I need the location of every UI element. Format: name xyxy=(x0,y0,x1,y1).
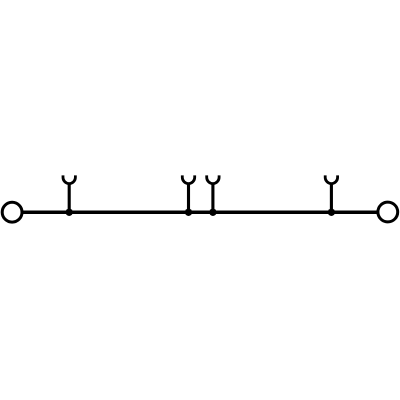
clamp contact 2 xyxy=(182,175,194,212)
clamp contact 4 xyxy=(325,175,337,212)
junction dot 4 xyxy=(328,209,335,216)
terminal R1 (right circle) xyxy=(378,202,398,222)
junction dot 3 xyxy=(209,209,216,216)
wire main bus xyxy=(21,210,379,214)
clamp contact 3 xyxy=(207,175,219,212)
terminal L1 (left circle) xyxy=(2,202,22,222)
junction dot 1 xyxy=(66,209,73,216)
clamp contact 1 xyxy=(63,175,75,212)
junction dot 2 xyxy=(185,209,192,216)
